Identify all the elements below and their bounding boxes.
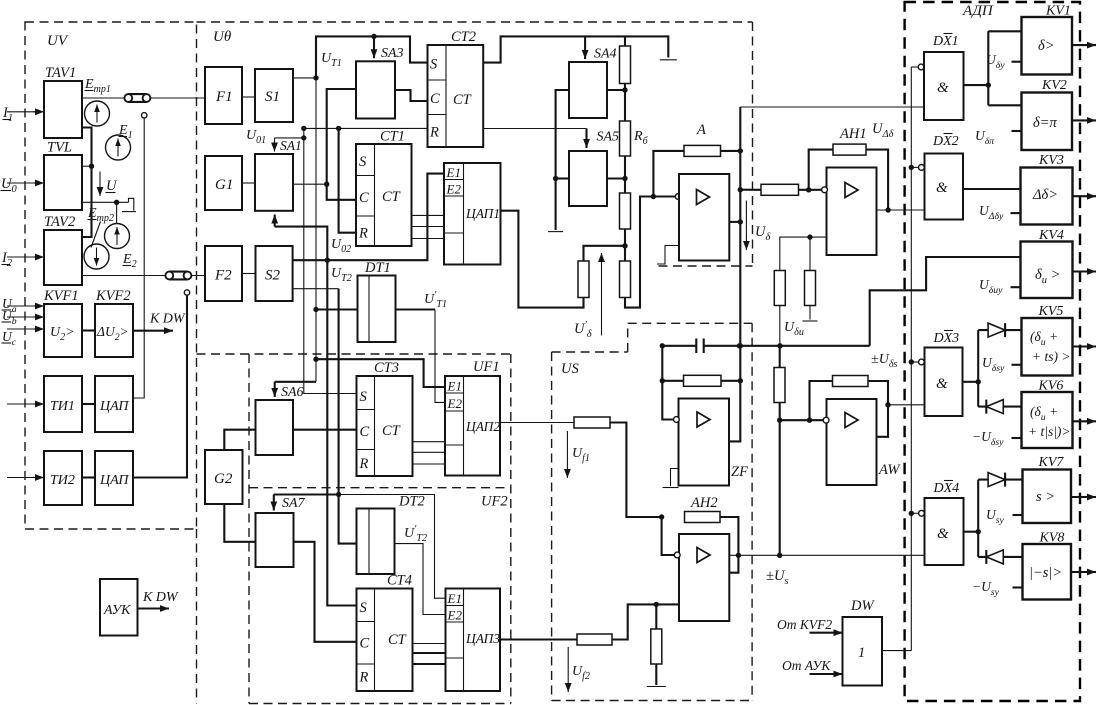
svg-text:E2: E2 — [447, 608, 463, 623]
svg-text:&: & — [936, 376, 948, 392]
svg-text:TAV1: TAV1 — [45, 65, 76, 81]
svg-text:UF2: UF2 — [481, 494, 508, 510]
svg-text:Δδ>: Δδ> — [1032, 187, 1058, 203]
svg-text:CT3: CT3 — [374, 360, 399, 376]
svg-text:E1: E1 — [447, 591, 462, 606]
svg-text:&: & — [937, 526, 949, 542]
svg-text:E1: E1 — [446, 165, 461, 180]
svg-text:S: S — [430, 57, 438, 73]
svg-text:SA1: SA1 — [280, 138, 302, 153]
svg-text:S: S — [360, 389, 368, 405]
svg-text:CT2: CT2 — [451, 29, 476, 45]
svg-text:U: U — [106, 178, 118, 194]
svg-text:От KVF2: От KVF2 — [777, 617, 832, 632]
svg-text:|−s|>: |−s|> — [1029, 565, 1062, 581]
svg-text:ЦАП3: ЦАП3 — [465, 631, 500, 646]
svg-text:AH1: AH1 — [839, 126, 867, 142]
svg-text:1: 1 — [858, 645, 865, 661]
svg-text:Uθ: Uθ — [213, 29, 232, 45]
svg-text:C: C — [360, 636, 370, 652]
svg-text:ZF: ZF — [731, 464, 748, 480]
svg-text:+ t|s|)>: + t|s|)> — [1028, 424, 1071, 439]
svg-text:От АУК: От АУК — [782, 658, 831, 673]
svg-text:S1: S1 — [265, 89, 280, 105]
svg-text:TVL: TVL — [47, 140, 72, 156]
svg-text:G2: G2 — [214, 471, 233, 487]
svg-text:ЦАП: ЦАП — [99, 399, 129, 414]
svg-text:CT: CT — [382, 423, 401, 439]
svg-text:DX2: DX2 — [932, 134, 959, 149]
svg-text:SA4: SA4 — [594, 47, 617, 62]
svg-text:C: C — [359, 190, 369, 206]
svg-text:KV4: KV4 — [1038, 228, 1064, 243]
svg-text:DX4: DX4 — [933, 481, 960, 496]
svg-text:SA3: SA3 — [381, 46, 404, 61]
svg-text:SA6: SA6 — [281, 385, 304, 400]
svg-text:R: R — [359, 456, 369, 472]
svg-text:ЦАП2: ЦАП2 — [465, 419, 500, 434]
svg-text:δ=π: δ=π — [1033, 115, 1058, 131]
svg-text:AH2: AH2 — [690, 495, 718, 511]
svg-text:E2: E2 — [446, 182, 462, 197]
svg-text:s >: s > — [1036, 489, 1055, 505]
svg-text:UV: UV — [47, 33, 69, 49]
svg-text:KV2: KV2 — [1041, 78, 1067, 93]
svg-text:ЦАП1: ЦАП1 — [465, 206, 500, 221]
svg-text:KV3: KV3 — [1038, 153, 1064, 168]
svg-text:SA5: SA5 — [597, 130, 620, 145]
svg-text:AW: AW — [878, 462, 901, 478]
svg-text:US: US — [561, 361, 579, 377]
svg-text:C: C — [430, 91, 440, 107]
svg-text:G1: G1 — [215, 177, 233, 193]
svg-text:ТИ2: ТИ2 — [50, 473, 75, 488]
svg-text:+ ts) >: + ts) > — [1032, 349, 1070, 364]
svg-text:δ>: δ> — [1038, 38, 1055, 54]
svg-text:KV6: KV6 — [1038, 379, 1064, 394]
svg-text:DX1: DX1 — [932, 34, 959, 49]
svg-text:К DW: К DW — [142, 590, 179, 605]
svg-text:R: R — [429, 125, 439, 141]
svg-text:&: & — [937, 80, 949, 96]
svg-text:R: R — [358, 226, 368, 242]
svg-text:KVF2: KVF2 — [95, 288, 131, 304]
svg-text:F2: F2 — [214, 268, 232, 284]
svg-text:R: R — [359, 670, 369, 686]
svg-text:DW: DW — [850, 598, 875, 614]
svg-text:CT: CT — [382, 189, 401, 205]
svg-text:KV8: KV8 — [1039, 531, 1065, 546]
svg-text:АДП: АДП — [962, 3, 994, 19]
svg-text:S: S — [359, 154, 367, 170]
svg-text:E1: E1 — [447, 379, 462, 394]
svg-text:CT: CT — [388, 632, 407, 648]
svg-text:A: A — [696, 122, 706, 138]
svg-text:АУК: АУК — [103, 603, 131, 618]
svg-text:К DW: К DW — [149, 312, 186, 327]
svg-text:DX3: DX3 — [933, 331, 960, 346]
svg-text:KV7: KV7 — [1038, 455, 1065, 470]
svg-text:S2: S2 — [265, 268, 281, 284]
svg-text:DT1: DT1 — [364, 260, 391, 276]
svg-text:ЦАП: ЦАП — [99, 473, 129, 488]
svg-text:SA7: SA7 — [282, 496, 306, 511]
svg-text:F1: F1 — [215, 89, 233, 105]
svg-text:&: & — [936, 180, 948, 196]
svg-text:DT2: DT2 — [398, 494, 425, 510]
svg-text:KV5: KV5 — [1038, 304, 1064, 319]
svg-text:UF1: UF1 — [473, 359, 500, 375]
svg-text:KVF1: KVF1 — [43, 288, 79, 304]
svg-text:ТИ1: ТИ1 — [50, 399, 75, 414]
svg-text:CT4: CT4 — [387, 573, 412, 589]
svg-text:S: S — [360, 600, 368, 616]
svg-text:CT1: CT1 — [380, 129, 405, 145]
svg-text:CT: CT — [453, 92, 472, 108]
svg-text:KV1: KV1 — [1045, 4, 1071, 19]
svg-text:C: C — [360, 424, 370, 440]
svg-text:TAV2: TAV2 — [44, 214, 75, 230]
svg-text:E2: E2 — [447, 396, 463, 411]
